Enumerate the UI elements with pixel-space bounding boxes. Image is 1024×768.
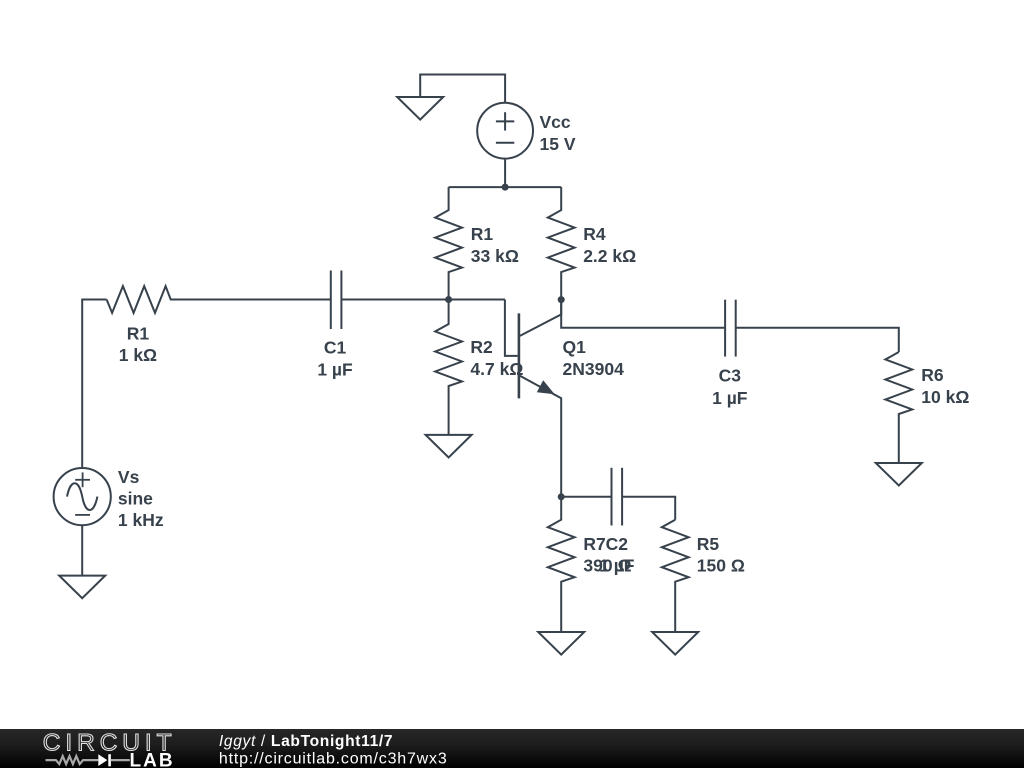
svg-text:2N3904: 2N3904 — [563, 359, 625, 379]
svg-text:http://circuitlab.com/c3h7wx3: http://circuitlab.com/c3h7wx3 — [219, 751, 448, 768]
resistor R7 390 — [548, 497, 575, 632]
ground below R2 — [426, 435, 472, 458]
ground below R6 — [876, 463, 922, 486]
svg-text:1 kHz: 1 kHz — [118, 510, 164, 530]
voltage source Vcc — [477, 103, 533, 159]
wire top rail to Vcc — [420, 75, 505, 103]
svg-text:1 µF: 1 µF — [599, 555, 635, 575]
node collector junction — [558, 296, 565, 303]
ground below R5 — [652, 632, 698, 655]
svg-text:10 kΩ: 10 kΩ — [921, 387, 969, 407]
capacitor C1 — [330, 271, 332, 330]
transistor Q1 collector — [520, 300, 561, 336]
capacitor C2 — [611, 468, 613, 526]
transistor Q1 emitter arrow — [537, 380, 555, 394]
wire input column from Vs up and right to R1h — [82, 300, 106, 468]
wire C3 to R6 — [736, 328, 899, 352]
resistor R2 4.7k — [435, 300, 462, 435]
svg-text:R7: R7 — [583, 534, 605, 554]
transistor Q1 base bar — [518, 313, 521, 398]
svg-text:Q1: Q1 — [563, 337, 587, 357]
svg-text:1 µF: 1 µF — [712, 388, 748, 408]
footer bar — [0, 729, 1024, 768]
svg-text:R4: R4 — [583, 224, 606, 244]
svg-text:C1: C1 — [324, 337, 347, 357]
svg-text:15 V: 15 V — [540, 134, 576, 154]
wire C1 to base junction and base L-wire — [341, 299, 505, 301]
svg-text:4.7 kΩ: 4.7 kΩ — [470, 359, 523, 379]
logo resistor squiggle — [46, 756, 99, 764]
svg-text:1 kΩ: 1 kΩ — [119, 345, 157, 365]
resistor R4 2.2k — [548, 187, 575, 300]
wire Vcc to rail — [504, 159, 506, 188]
svg-text:C2: C2 — [606, 534, 629, 554]
svg-text:C3: C3 — [719, 365, 742, 385]
svg-text:2.2 kΩ: 2.2 kΩ — [583, 246, 636, 266]
voltage source Vs — [54, 468, 111, 525]
ground top-left — [397, 97, 443, 120]
svg-text:33 kΩ: 33 kΩ — [471, 246, 519, 266]
svg-text:R6: R6 — [921, 365, 944, 385]
svg-text:R1: R1 — [471, 224, 494, 244]
svg-text:R1: R1 — [127, 323, 150, 343]
transistor Q1 emitter — [520, 376, 561, 497]
wire Vs to ground — [81, 525, 83, 575]
logo diode — [98, 754, 107, 766]
capacitor C3 — [724, 300, 726, 357]
svg-text:150 Ω: 150 Ω — [697, 555, 745, 575]
svg-text:Vs: Vs — [118, 467, 140, 487]
node rail junction — [502, 184, 509, 191]
svg-text:R2: R2 — [470, 337, 493, 357]
wire collector to output row — [561, 300, 725, 328]
svg-text:Iggyt / LabTonight11/7: Iggyt / LabTonight11/7 — [219, 733, 393, 750]
wire C2 to R5 — [622, 497, 675, 520]
ground below Vs — [59, 576, 105, 599]
wire emitter row to C2 — [561, 496, 611, 498]
node emitter junction — [558, 493, 565, 500]
node base divider junction — [445, 296, 452, 303]
resistor R6 10k — [885, 352, 912, 463]
svg-text:1 µF: 1 µF — [317, 359, 353, 379]
svg-text:Vcc: Vcc — [540, 112, 571, 132]
svg-text:R5: R5 — [697, 534, 720, 554]
resistor R1 1k horizontal — [107, 286, 331, 313]
wire rail — [449, 186, 562, 188]
svg-text:LAB: LAB — [130, 750, 175, 768]
resistor R5 150 — [662, 520, 689, 632]
svg-text:sine: sine — [118, 489, 153, 509]
resistor R1 33k — [435, 187, 462, 299]
ground below R7 — [538, 632, 584, 655]
